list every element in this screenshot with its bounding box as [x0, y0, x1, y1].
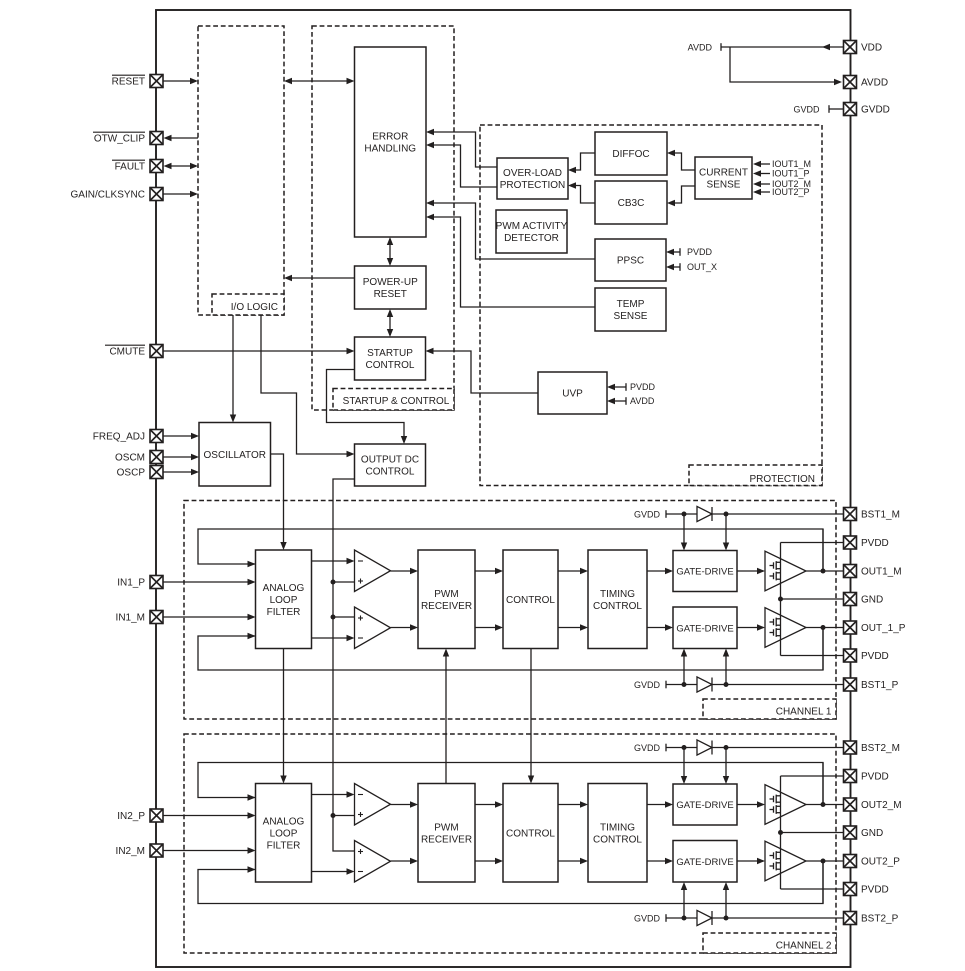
svg-text:IOUT1_P: IOUT1_P [772, 169, 810, 179]
svg-text:VDD: VDD [861, 43, 882, 54]
svg-text:AVDD: AVDD [861, 78, 888, 89]
svg-text:GVDD: GVDD [634, 913, 661, 923]
svg-text:CHANNEL 1: CHANNEL 1 [776, 707, 832, 718]
svg-text:RESET: RESET [374, 289, 407, 300]
svg-text:OUT2_P: OUT2_P [861, 857, 900, 868]
svg-text:GAIN/CLKSYNC: GAIN/CLKSYNC [71, 190, 145, 201]
svg-text:STARTUP & CONTROL: STARTUP & CONTROL [343, 396, 450, 407]
svg-text:BST1_M: BST1_M [861, 510, 900, 521]
svg-text:IN2_P: IN2_P [117, 811, 145, 822]
svg-text:BST2_M: BST2_M [861, 743, 900, 754]
svg-text:FREQ_ADJ: FREQ_ADJ [93, 432, 145, 443]
svg-text:OVER-LOAD: OVER-LOAD [503, 168, 562, 179]
svg-text:TIMING: TIMING [600, 589, 635, 600]
svg-text:PVDD: PVDD [630, 382, 656, 392]
svg-text:BST1_P: BST1_P [861, 680, 899, 691]
svg-text:GVDD: GVDD [634, 509, 661, 519]
svg-text:PPSC: PPSC [617, 256, 644, 267]
svg-text:CMUTE: CMUTE [109, 347, 145, 358]
svg-text:IOUT2_P: IOUT2_P [772, 187, 810, 197]
svg-text:GVDD: GVDD [793, 104, 820, 114]
svg-text:IN2_M: IN2_M [116, 846, 145, 857]
svg-text:PVDD: PVDD [861, 538, 889, 549]
svg-text:CONTROL: CONTROL [366, 467, 415, 478]
svg-text:RECEIVER: RECEIVER [421, 834, 472, 845]
svg-text:ANALOG: ANALOG [263, 583, 305, 594]
svg-text:UVP: UVP [562, 389, 583, 400]
svg-text:OUT_1_P: OUT_1_P [861, 623, 906, 634]
svg-text:PVDD: PVDD [861, 772, 889, 783]
svg-text:CONTROL: CONTROL [506, 595, 555, 606]
svg-text:GVDD: GVDD [861, 105, 890, 116]
svg-text:OTW_CLIP: OTW_CLIP [94, 134, 145, 145]
svg-text:AVDD: AVDD [688, 42, 713, 52]
svg-text:FILTER: FILTER [267, 607, 301, 618]
svg-text:PROTECTION: PROTECTION [749, 474, 815, 485]
svg-text:GATE-DRIVE: GATE-DRIVE [676, 623, 733, 634]
svg-text:GVDD: GVDD [634, 680, 661, 690]
svg-text:PVDD: PVDD [687, 247, 713, 257]
svg-text:OSCP: OSCP [117, 468, 146, 479]
svg-text:CURRENT: CURRENT [699, 168, 748, 179]
svg-text:RESET: RESET [112, 77, 145, 88]
svg-text:TIMING: TIMING [600, 822, 635, 833]
svg-text:CONTROL: CONTROL [593, 834, 642, 845]
svg-text:RECEIVER: RECEIVER [421, 601, 472, 612]
svg-text:FILTER: FILTER [267, 840, 301, 851]
svg-text:LOOP: LOOP [270, 595, 298, 606]
svg-text:PWM ACTIVITY: PWM ACTIVITY [496, 221, 568, 232]
svg-text:TEMP: TEMP [617, 299, 645, 310]
svg-text:SENSE: SENSE [707, 180, 741, 191]
svg-text:CONTROL: CONTROL [506, 828, 555, 839]
svg-text:CONTROL: CONTROL [366, 360, 415, 371]
svg-text:DETECTOR: DETECTOR [504, 233, 559, 244]
svg-text:OUT_X: OUT_X [687, 262, 717, 272]
svg-text:STARTUP: STARTUP [367, 348, 413, 359]
svg-text:CHANNEL 2: CHANNEL 2 [776, 940, 832, 951]
svg-text:PWM: PWM [434, 589, 458, 600]
svg-text:IN1_P: IN1_P [117, 578, 145, 589]
svg-text:OUT1_M: OUT1_M [861, 567, 902, 578]
svg-text:GND: GND [861, 595, 883, 606]
svg-text:OUTPUT DC: OUTPUT DC [361, 455, 419, 466]
svg-text:BST2_P: BST2_P [861, 914, 899, 925]
svg-text:CB3C: CB3C [618, 198, 645, 209]
svg-text:PVDD: PVDD [861, 651, 889, 662]
svg-text:FAULT: FAULT [115, 162, 145, 173]
svg-text:IN1_M: IN1_M [116, 613, 145, 624]
svg-text:PVDD: PVDD [861, 885, 889, 896]
svg-text:GATE-DRIVE: GATE-DRIVE [676, 800, 733, 811]
svg-text:I/O LOGIC: I/O LOGIC [231, 302, 278, 313]
svg-text:OSCILLATOR: OSCILLATOR [204, 450, 266, 461]
svg-text:DIFFOC: DIFFOC [612, 149, 649, 160]
svg-text:SENSE: SENSE [614, 311, 648, 322]
svg-text:PWM: PWM [434, 822, 458, 833]
svg-text:POWER-UP: POWER-UP [363, 277, 418, 288]
svg-text:ANALOG: ANALOG [263, 816, 305, 827]
svg-text:PROTECTION: PROTECTION [500, 180, 566, 191]
svg-text:CONTROL: CONTROL [593, 601, 642, 612]
svg-text:OUT2_M: OUT2_M [861, 800, 902, 811]
svg-text:OSCM: OSCM [115, 453, 145, 464]
svg-text:GATE-DRIVE: GATE-DRIVE [676, 857, 733, 868]
svg-text:LOOP: LOOP [270, 828, 298, 839]
svg-text:IOUT1_M: IOUT1_M [772, 159, 811, 169]
svg-text:ERROR: ERROR [372, 132, 408, 143]
svg-text:AVDD: AVDD [630, 396, 655, 406]
svg-text:GATE-DRIVE: GATE-DRIVE [676, 567, 733, 578]
svg-text:GND: GND [861, 828, 883, 839]
svg-text:HANDLING: HANDLING [364, 144, 416, 155]
svg-text:GVDD: GVDD [634, 743, 661, 753]
